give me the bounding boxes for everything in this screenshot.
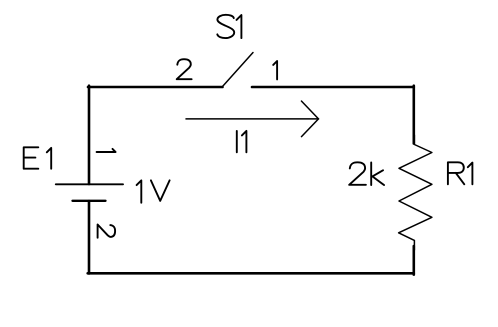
switch S1 pin 1 label (273, 61, 277, 79)
wire top-left segment (88, 86, 223, 89)
switch S1 label (217, 15, 241, 38)
resistor R1 label (448, 162, 473, 184)
wire right vertical lower (412, 246, 415, 275)
battery E1 short plate (-) (73, 200, 106, 202)
wire bottom segment (88, 272, 414, 275)
resistor R1 zigzag body (399, 135, 432, 250)
current arrow I1 shaft (186, 118, 319, 120)
current arrow I1 head (302, 101, 319, 137)
resistor R1 value 2k (349, 162, 384, 185)
wire right vertical upper (412, 86, 415, 144)
battery E1 pin 1 label (rotated) (97, 149, 116, 152)
battery E1 value 1V (137, 180, 170, 202)
wire left vertical lower (88, 201, 91, 274)
wire top-right segment (252, 86, 414, 89)
battery E1 label (24, 147, 52, 168)
switch S1 blade (223, 53, 254, 87)
battery E1 pin 2 label (rotated) (98, 225, 116, 238)
switch S1 pin 2 label (177, 59, 192, 79)
battery E1 long plate (+) (56, 183, 123, 185)
current I1 label (237, 131, 247, 152)
wire left vertical upper (88, 86, 91, 184)
